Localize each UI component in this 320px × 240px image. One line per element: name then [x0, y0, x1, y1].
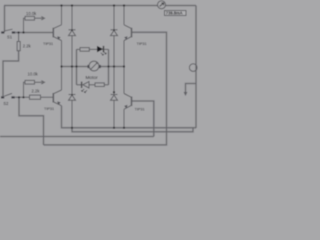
- diode D4: [111, 67, 118, 128]
- switch S1: [1, 29, 15, 33]
- svg-text:10.0k: 10.0k: [28, 72, 39, 77]
- diode D2: [111, 6, 118, 67]
- node D3 cathode: [71, 94, 73, 96]
- wire rail D bottom base-drive: [0, 136, 154, 138]
- svg-text:TIP31: TIP31: [135, 108, 145, 112]
- wire halo motor rail: [62, 65, 90, 67]
- ammeter M1: [158, 1, 166, 9]
- wire halo S1 to T1 base: [16, 31, 54, 33]
- svg-text:10.0k: 10.0k: [26, 11, 37, 16]
- wire halo branch column left: [75, 49, 77, 84]
- node top rail T1 collector: [60, 4, 62, 6]
- node motor rail branch left: [75, 65, 77, 67]
- node rail C D3: [71, 127, 73, 129]
- node D4 anode stub: [113, 91, 115, 93]
- node motor rail D1: [71, 65, 73, 67]
- wire left edge to S1: [4, 6, 6, 33]
- LED D5 (on, pointing right): [97, 46, 109, 55]
- svg-text:2.2k: 2.2k: [23, 44, 32, 49]
- node top rail T2 collector: [123, 4, 125, 6]
- node S2 wire wireA: [18, 96, 20, 98]
- node motor rail T1 emitter: [60, 65, 62, 67]
- svg-text:739.8mA: 739.8mA: [166, 11, 183, 16]
- svg-text:TIP31: TIP31: [44, 107, 54, 111]
- wire halo left edge to S1: [3, 6, 5, 33]
- node top rail D1: [71, 4, 73, 6]
- wire halo T2 base cross-coupling to S2 via rail F: [44, 32, 167, 145]
- ground arrow down (0V supply arrow): [184, 92, 188, 96]
- power supply PS1: [189, 64, 197, 72]
- diode D3: [69, 67, 76, 128]
- wire branch column left: [76, 49, 78, 84]
- transistor Q1 TIP31 top-left: [53, 6, 61, 67]
- wire halo 2.2k branch down-left to S2 left: [3, 51, 19, 96]
- node rail C T4 emitter: [123, 127, 125, 129]
- wire A from S2 down to rail F: [19, 97, 44, 145]
- node motor rail T2 emitter: [123, 65, 125, 67]
- node rail C D4: [113, 127, 115, 129]
- node top rail D2: [113, 4, 115, 6]
- resistor R4 (bottom LED branch): [95, 83, 109, 87]
- node S2 wire 10.0k: [22, 96, 24, 98]
- junction dots: [18, 4, 126, 129]
- resistor R2 2.2k: [17, 33, 20, 51]
- resistor R3 (top LED branch): [77, 48, 98, 52]
- resistor R5 10.0k lower: [24, 80, 45, 97]
- wire S1 to T1 base: [16, 32, 54, 34]
- node motor rail D2: [113, 65, 115, 67]
- svg-text:TIP31: TIP31: [137, 42, 147, 46]
- wire halo 0V stub arrow branch: [186, 84, 197, 93]
- node S1 wire 10.0k: [22, 31, 24, 33]
- svg-text:2.2k: 2.2k: [32, 89, 41, 94]
- wire halo +V top rail: [4, 4, 158, 6]
- wire right edge battery column: [195, 6, 197, 129]
- LED D6 (off, pointing left): [77, 82, 96, 93]
- wire 2.2k branch down-left to S2 left: [3, 51, 19, 96]
- wire 0V stub arrow branch: [186, 84, 197, 93]
- svg-text:S2: S2: [3, 101, 9, 106]
- wire T2 base cross-coupling to S2 via rail F: [44, 32, 167, 145]
- wire halo right edge battery column: [195, 6, 197, 129]
- wire branch column right: [108, 49, 110, 84]
- diode D1: [69, 6, 76, 67]
- node D2 cathode: [113, 29, 115, 31]
- motor M: [88, 61, 101, 71]
- wire S2 to T3 base: [15, 96, 53, 98]
- wire T4 base to rail D: [132, 101, 154, 137]
- node motor rail branch right: [107, 65, 109, 67]
- wire halo rail E 0V link: [72, 128, 193, 132]
- svg-text:S1: S1: [7, 35, 13, 40]
- transistor Q4 TIP31 bottom-right: [124, 67, 132, 128]
- wire halo A from S2 down to rail F: [19, 97, 44, 145]
- wire halo T4 base to rail D: [132, 101, 154, 137]
- switch S2: [1, 93, 15, 98]
- wire motor rail: [62, 66, 90, 68]
- wire rail E 0V link: [72, 128, 193, 132]
- resistor R6 2.2k lower: [30, 95, 41, 99]
- svg-text:Motor: Motor: [86, 75, 99, 81]
- transistor Q2 TIP31 top-right: [124, 6, 132, 67]
- wire halo rail D bottom base-drive: [0, 135, 154, 137]
- meter readout box 739.8mA: [165, 11, 187, 16]
- wire halo branch column right: [107, 49, 109, 84]
- wire halo rail C bottom 0V: [62, 106, 197, 128]
- node S1 wire 2.2k: [18, 31, 20, 33]
- node D1 cathode: [71, 29, 73, 31]
- transistor Q3 TIP31 bottom-left: [53, 67, 61, 106]
- wire +V top rail: [4, 5, 158, 7]
- wire rail C bottom 0V: [62, 106, 197, 128]
- resistor R1 10.0k: [24, 16, 45, 32]
- svg-text:TIP31: TIP31: [43, 42, 53, 46]
